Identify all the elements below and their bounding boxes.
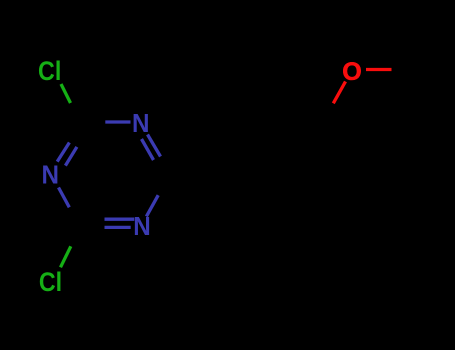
svg-text:N: N [133,211,151,241]
wire: triazine bond N5=C4 double main (N half) [105,226,131,229]
wire: bond C4-Cl bottom (Cl half, green) [61,246,71,267]
wire: triazine bond N3=C2 double main (N half) [57,143,69,162]
wire: bond C2-Cl top (Cl half, green) [61,84,71,103]
wire: triazine bond C6-N5 single (N half) [146,195,158,216]
wire: methoxy bond O-CH3 horizontal (O half, red) [366,68,392,71]
wire: triazine bond N3=C2 double inner (N half) [65,147,77,166]
wire: triazine bond N1=C6 double inner (N half) [142,139,154,160]
svg-text:Cl: Cl [39,267,62,297]
wire: triazine bond N5=C4 double inner (N half) [105,218,135,221]
svg-text:Cl: Cl [38,56,61,86]
wire: bond O-C3' of phenyl (O half, red) [333,82,345,104]
wire: triazine bond C2-N1 single (top horizontal, N half) [105,120,130,123]
svg-text:N: N [132,108,150,138]
svg-text:O: O [342,58,362,86]
svg-text:N: N [41,160,59,190]
wire: triazine bond C4-N3 single (N half) [59,188,70,208]
wire: triazine bond N1=C6 double main (N half) [148,135,161,157]
